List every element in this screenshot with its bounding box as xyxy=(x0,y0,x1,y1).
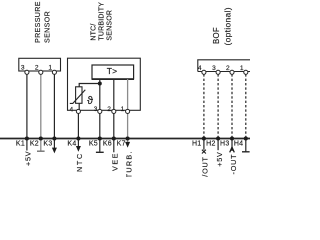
junction dot H4 xyxy=(244,136,248,140)
svg-text:H1: H1 xyxy=(192,140,202,147)
svg-text:-OUT: -OUT xyxy=(229,154,238,175)
comparator U1 box (T>) xyxy=(92,65,134,79)
K3 signal arrow (down) xyxy=(52,148,57,154)
wire: comparator to pin 1 (gray) xyxy=(127,79,129,111)
pin circle 3 (pressure) xyxy=(25,70,29,74)
svg-text:TURB.: TURB. xyxy=(124,150,133,177)
svg-text:4: 4 xyxy=(198,65,202,72)
junction dot K5 xyxy=(98,136,102,140)
connector X3 BOF box (cut by image edge) xyxy=(198,60,251,72)
wire: BOF pin 3 to terminal H2 (dashed) xyxy=(217,74,219,138)
pin circle 4 (NTC) xyxy=(76,109,80,113)
svg-text:K4: K4 xyxy=(67,140,76,147)
pin circle 1 (NTC) xyxy=(126,109,130,113)
K4 signal arrow (down) xyxy=(76,146,81,152)
H3 signal arrow (up) xyxy=(230,147,235,152)
wire: NTC pin 1 to terminal K7 (gray) xyxy=(127,111,129,143)
svg-text:2: 2 xyxy=(35,65,39,72)
wire: NTC pin 4 to terminal K4 xyxy=(77,111,79,139)
svg-text:3: 3 xyxy=(212,65,216,72)
wire: thermistor bottom lead to pin 4 xyxy=(78,103,80,111)
junction dot H3 xyxy=(230,136,234,140)
wire: comparator to pin 3 xyxy=(99,79,101,111)
svg-text:3: 3 xyxy=(94,106,98,113)
node A junction dot xyxy=(98,82,102,86)
svg-text:+5V: +5V xyxy=(24,151,33,166)
wire: H4 stub below bus xyxy=(245,139,247,152)
wire: BOF pin 2 to terminal H3 (dashed) xyxy=(231,74,233,138)
wire: K4 stub below bus xyxy=(77,139,79,147)
svg-text:NTC/: NTC/ xyxy=(91,23,98,40)
wire: main horizontal bus xyxy=(0,138,250,140)
wire: thermistor top lead to node A xyxy=(79,84,100,88)
svg-text:4: 4 xyxy=(70,106,74,113)
svg-text:1: 1 xyxy=(240,65,244,72)
svg-text:NTC: NTC xyxy=(75,152,84,172)
wire: BOF pin 1 to terminal H4 (dashed) xyxy=(245,74,247,138)
junction dot K3 xyxy=(52,136,56,140)
svg-text:H3: H3 xyxy=(220,140,230,147)
svg-text:TURBIDITY: TURBIDITY xyxy=(99,2,106,41)
thermistor R1 strike line xyxy=(70,90,86,104)
svg-text:BOF: BOF xyxy=(212,27,221,44)
svg-text:IN/OUT: IN/OUT xyxy=(201,156,210,177)
wire: NTC pin 3 to terminal K5 xyxy=(99,111,101,139)
wire: H1 stub below bus xyxy=(203,139,205,150)
junction dot K2 xyxy=(39,136,43,140)
junction dot H2 xyxy=(216,136,220,140)
wire: pressure pin 1 to terminal K3 xyxy=(53,72,55,148)
svg-text:2: 2 xyxy=(107,106,111,113)
pin circle 2 (pressure) xyxy=(39,70,43,74)
svg-text:H2: H2 xyxy=(206,140,216,147)
svg-text:K1: K1 xyxy=(16,140,25,147)
wire: K1 stub below bus xyxy=(26,139,28,151)
pin circle 3 (NTC) xyxy=(98,109,102,113)
K7 signal arrow (down) xyxy=(125,142,130,148)
svg-text:K6: K6 xyxy=(103,140,112,147)
svg-text:PRESSURE: PRESSURE xyxy=(34,1,42,43)
K5 wire end bar xyxy=(96,151,104,153)
wire: K5 stub below bus xyxy=(99,139,101,152)
svg-text:T>: T> xyxy=(107,66,118,76)
pin circle 3 (BOF) xyxy=(216,70,220,74)
pin circle 2 (NTC) xyxy=(112,109,116,113)
pin circle 4 (BOF) xyxy=(202,70,206,74)
thermistor R1 body xyxy=(76,87,82,104)
svg-text:K5: K5 xyxy=(89,140,98,147)
wire: comparator to pin 2 xyxy=(113,79,115,111)
svg-text:VEE: VEE xyxy=(111,152,120,171)
svg-text:3: 3 xyxy=(21,65,25,72)
connector X2 NTC/turbidity sensor outer box xyxy=(68,58,141,110)
wire: pressure pin 2 to terminal K2 (gray) xyxy=(40,72,42,151)
svg-text:+5V: +5V xyxy=(215,151,224,166)
connector X1 pressure sensor box xyxy=(19,58,61,71)
K2 wire end bar xyxy=(37,150,45,152)
svg-text:H4: H4 xyxy=(234,140,244,147)
wire: NTC pin 2 to terminal K6 xyxy=(113,111,115,153)
junction dot K4 xyxy=(76,136,80,140)
junction dot H1 xyxy=(202,136,206,140)
wire: pressure pin 3 to terminal K1 xyxy=(26,72,28,139)
svg-text:SENSOR: SENSOR xyxy=(107,10,114,41)
pin circle 1 (pressure) xyxy=(52,70,56,74)
svg-text:K2: K2 xyxy=(30,140,39,147)
wire: H3 stub below bus xyxy=(231,139,233,152)
wire: H2 stub below bus xyxy=(217,139,219,151)
svg-text:(optional): (optional) xyxy=(222,7,232,45)
junction dot K7 xyxy=(126,136,130,140)
pin circle 2 (BOF) xyxy=(230,70,234,74)
svg-text:K7: K7 xyxy=(117,140,126,147)
comparator U1 box bottom edge (thick) xyxy=(92,78,134,80)
wire: BOF pin 4 to terminal H1 (dashed) xyxy=(203,74,205,138)
H1 bidirectional mark (x) xyxy=(202,150,206,154)
H4 wire end bar xyxy=(242,151,250,153)
junction dot K6 xyxy=(112,136,116,140)
svg-text:2: 2 xyxy=(226,65,230,72)
svg-text:ϑ: ϑ xyxy=(87,95,93,107)
svg-text:K3: K3 xyxy=(43,140,52,147)
junction dot K1 xyxy=(25,136,29,140)
svg-text:1: 1 xyxy=(48,65,52,72)
pin circle 1 (BOF) xyxy=(244,70,248,74)
svg-text:1: 1 xyxy=(121,106,125,113)
svg-text:SENSOR: SENSOR xyxy=(44,11,52,43)
